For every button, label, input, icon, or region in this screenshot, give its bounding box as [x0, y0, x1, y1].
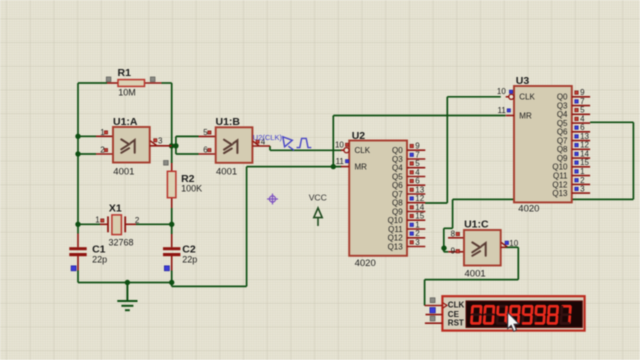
svg-text:Q0: Q0	[392, 146, 403, 155]
U1:C pin9 lead	[448, 251, 464, 253]
wire ground rail right	[172, 285, 247, 287]
U2 pin Q3 (pin 7)	[392, 150, 425, 164]
svg-text:4001: 4001	[216, 166, 237, 177]
U1:C output lead	[501, 246, 506, 248]
op-amp-style NOR gate U1:C body	[464, 230, 501, 266]
U3 CLK pin	[506, 96, 509, 98]
gate U1:A IEC symbol &gt;=1	[121, 139, 134, 152]
svg-text:Q6: Q6	[557, 128, 568, 137]
wire node A to C1	[77, 224, 79, 233]
wire to U1:C pin9	[444, 251, 449, 253]
wire Q5 vertical	[632, 122, 634, 199]
display RST lead	[425, 322, 443, 324]
svg-text:U3: U3	[516, 75, 530, 87]
X1 pin1 lead	[100, 223, 108, 225]
U2 pin Q0 (pin 9)	[392, 142, 425, 156]
svg-text:3: 3	[158, 136, 163, 145]
svg-text:Q9: Q9	[392, 207, 403, 216]
svg-text:7: 7	[580, 97, 585, 106]
wire down to U1:C jog	[452, 199, 454, 228]
C2 bottom lead	[171, 256, 173, 271]
capacitor C2	[163, 234, 180, 271]
svg-text:1: 1	[415, 220, 420, 229]
wire jog U1:C	[444, 227, 453, 229]
wire C2 bottom	[171, 271, 173, 283]
display digit 7 = 8	[546, 305, 559, 325]
wire MR net to U3 MR	[333, 115, 505, 117]
svg-text:U1:A: U1:A	[113, 116, 138, 128]
svg-text:13: 13	[580, 132, 589, 141]
wire U1:C out	[506, 246, 519, 248]
wire to U1:B pin6	[176, 153, 199, 155]
svg-text:VCC: VCC	[309, 192, 327, 202]
R2 top lead	[171, 163, 173, 171]
counter U3 4020 body	[514, 86, 572, 202]
X1 pin2 lead	[125, 223, 136, 225]
svg-text:Q5: Q5	[392, 172, 403, 181]
svg-text:9: 9	[451, 247, 456, 256]
U1:A pin2 lead	[96, 153, 113, 155]
voltage probe symbol	[283, 137, 294, 151]
svg-text:2: 2	[580, 176, 585, 185]
wire to U3 CLK	[447, 96, 501, 98]
svg-text:11: 11	[497, 106, 506, 115]
svg-text:Q10: Q10	[388, 216, 404, 225]
wire Q8 to U3 CLK vertical	[446, 97, 448, 203]
svg-text:Q6: Q6	[392, 181, 403, 190]
svg-text:22p: 22p	[92, 254, 107, 264]
svg-text:4020: 4020	[355, 258, 376, 269]
wire R1 right	[162, 82, 172, 84]
svg-text:Q13: Q13	[388, 242, 404, 251]
power VCC	[314, 208, 322, 226]
U3 pin Q13 (pin 3)	[552, 185, 590, 199]
svg-text:U1:C: U1:C	[464, 218, 489, 230]
display CE lead	[426, 314, 443, 316]
pin marker 9	[456, 250, 459, 253]
svg-text:1: 1	[580, 167, 585, 176]
op-amp-style NOR gate U1:A body	[113, 127, 150, 163]
svg-text:6: 6	[415, 177, 420, 186]
svg-text:Q5: Q5	[557, 119, 568, 128]
U3 pin Q0 (pin 9)	[557, 88, 590, 102]
C2 top lead	[171, 234, 173, 247]
gate U1:B IEC symbol &gt;=1	[224, 140, 237, 153]
svg-text:2: 2	[415, 229, 420, 238]
pin marker 2	[104, 149, 107, 152]
U2 pin Q5 (pin 4)	[392, 168, 425, 182]
svg-text:Q11: Q11	[388, 225, 403, 234]
svg-text:4001: 4001	[465, 268, 486, 279]
svg-text:Q8: Q8	[557, 145, 568, 154]
origin crosshair marker	[267, 194, 278, 205]
svg-text:32768: 32768	[109, 238, 134, 248]
U2 pin Q7 (pin 13)	[392, 185, 425, 199]
wire R1 left to node A	[78, 82, 107, 84]
svg-text:Q4: Q4	[392, 164, 403, 173]
wire U2 Q8 out	[425, 202, 447, 204]
wire Q5 return under U3	[453, 198, 634, 200]
svg-text:5: 5	[415, 159, 420, 168]
svg-text:11: 11	[336, 157, 345, 166]
wire MR net vertical	[332, 116, 334, 167]
R1 terminal marker left	[106, 77, 111, 82]
C1 state marker	[71, 266, 76, 271]
pin marker 11 U3	[507, 109, 510, 112]
svg-text:Q12: Q12	[552, 180, 568, 189]
U1:B output lead	[252, 145, 270, 147]
U1:A output lead	[150, 145, 172, 147]
node junction MR net	[331, 164, 336, 169]
U2 pin Q12 (pin 2)	[388, 229, 426, 243]
U1:C output slash and lead	[501, 242, 507, 247]
U1:B pin5 lead	[199, 135, 216, 137]
wire ground rail left	[78, 282, 172, 284]
display digit 2 = 0	[483, 305, 496, 325]
wire C1 bottom	[77, 271, 79, 283]
svg-text:3: 3	[580, 185, 585, 194]
wire down to display CLK	[424, 280, 426, 306]
wire to U1:A pin1	[78, 135, 96, 137]
U3 pin Q7 (pin 13)	[557, 132, 590, 146]
svg-text:Q3: Q3	[392, 155, 403, 164]
svg-text:2: 2	[135, 216, 140, 225]
pin marker 3	[154, 139, 157, 142]
U2 CLK pin	[341, 149, 344, 151]
display CLK lead	[425, 305, 443, 307]
svg-text:13: 13	[415, 185, 424, 194]
svg-text:Q12: Q12	[388, 234, 404, 243]
wire to display	[425, 279, 519, 281]
svg-text:MR: MR	[355, 163, 368, 172]
pin marker 8	[456, 232, 459, 235]
display digit 8 = 7	[559, 305, 572, 325]
svg-text:4020: 4020	[518, 203, 539, 214]
svg-text:CLK: CLK	[355, 146, 371, 155]
U1:C pin8 lead	[448, 237, 464, 239]
wire U1:C out vertical	[517, 247, 519, 279]
wire MR net to U2 MR	[247, 166, 342, 168]
U3 pin Q8 (pin 12)	[557, 141, 590, 155]
svg-text:Q3: Q3	[557, 102, 568, 111]
svg-text:8: 8	[451, 230, 456, 239]
R1 right lead	[145, 82, 162, 84]
svg-text:10: 10	[509, 239, 518, 248]
U3 pin Q12 (pin 2)	[552, 176, 590, 190]
pin marker 10	[505, 241, 508, 244]
U2 pin Q6 (pin 6)	[392, 177, 425, 191]
display CLK state marker	[430, 298, 435, 303]
svg-text:6: 6	[203, 146, 208, 155]
svg-text:14: 14	[580, 150, 589, 159]
U1:B output slash and lead	[253, 141, 259, 146]
node junction X1 pin2	[169, 222, 174, 227]
U1:A pin1 lead	[96, 135, 113, 137]
wire jog U1:C vertical	[443, 228, 445, 252]
svg-text:Q7: Q7	[392, 190, 403, 199]
U2 pin Q8 (pin 12)	[392, 194, 425, 208]
svg-text:15: 15	[580, 158, 589, 167]
U3 pin Q3 (pin 7)	[557, 97, 590, 111]
node junction X1 pin1	[75, 222, 80, 227]
svg-text:Q13: Q13	[552, 189, 568, 198]
wire R2 bottom to X1 pin2 node	[171, 208, 173, 234]
capacitor C1	[69, 234, 86, 271]
C2 state marker	[164, 266, 169, 271]
wire output node to jog	[172, 145, 176, 147]
wire U1:B out jog	[269, 146, 271, 150]
svg-text:MR: MR	[519, 111, 532, 120]
svg-text:5: 5	[203, 128, 208, 137]
svg-text:12: 12	[580, 141, 589, 150]
svg-text:100K: 100K	[181, 184, 202, 194]
display digit 3 = 4	[495, 305, 508, 325]
U1:B pin6 lead	[199, 153, 216, 155]
node junction U1:C inputs	[441, 245, 446, 250]
wire X1 pin1	[78, 223, 100, 225]
node junction U1:A pin1	[75, 134, 80, 139]
wire U3 Q5 out	[590, 121, 633, 123]
node junction U1:A pin2	[75, 151, 80, 156]
clock waveform icon	[297, 138, 312, 147]
display CLK chevron	[443, 303, 447, 309]
svg-text:1: 1	[95, 216, 100, 225]
R2 terminal marker	[164, 161, 169, 166]
svg-text:9: 9	[580, 88, 585, 97]
svg-text:22p: 22p	[182, 254, 197, 264]
U3 MR pin	[506, 115, 514, 117]
wire up to MR net	[246, 167, 248, 287]
crystal X1	[100, 215, 136, 235]
node junction jog	[173, 143, 178, 148]
pin marker 11 U2	[346, 160, 349, 163]
U3 pin Q10 (pin 15)	[552, 158, 590, 172]
display digit 1 = 0	[470, 305, 483, 325]
U1:A output slash and lead	[150, 141, 157, 146]
counter U2 4020 body	[349, 141, 407, 256]
node junction gate output	[169, 143, 174, 148]
svg-text:CLK: CLK	[448, 301, 465, 310]
wire X1 pin2	[136, 223, 172, 225]
U2 MR pin	[341, 166, 349, 168]
svg-text:Q11: Q11	[553, 172, 568, 181]
resistor R1	[107, 80, 162, 87]
svg-text:Q0: Q0	[557, 93, 568, 102]
wire node B to R2 top	[171, 146, 173, 163]
wire rail step	[171, 283, 173, 287]
pin marker 5	[208, 131, 211, 134]
svg-text:10: 10	[497, 87, 506, 96]
svg-text:4: 4	[415, 168, 420, 177]
wire to U1:A pin2	[78, 153, 96, 155]
node junction ground	[125, 280, 130, 285]
wire to U1:B pin5	[176, 135, 199, 137]
svg-text:5: 5	[580, 106, 585, 115]
wire jog vertical	[175, 136, 177, 154]
U2 pin Q13 (pin 3)	[388, 238, 426, 252]
pin marker 4	[256, 140, 259, 143]
svg-text:CLK: CLK	[519, 93, 535, 102]
svg-text:10M: 10M	[118, 88, 136, 98]
U2 pin Q10 (pin 15)	[388, 212, 426, 226]
R2 bottom lead	[171, 198, 173, 208]
svg-text:7: 7	[415, 150, 420, 159]
svg-text:4001: 4001	[113, 166, 134, 177]
display CE state marker	[430, 308, 435, 313]
pin marker 1	[104, 131, 107, 134]
U3 pin Q11 (pin 1)	[553, 167, 590, 181]
svg-text:6: 6	[580, 123, 585, 132]
R1 terminal marker right	[150, 77, 155, 82]
display RST state marker	[430, 316, 435, 321]
svg-text:Q9: Q9	[557, 154, 568, 163]
R1 left lead	[107, 82, 118, 84]
svg-text:RST: RST	[448, 319, 464, 328]
svg-text:X1: X1	[109, 203, 122, 215]
svg-text:Q7: Q7	[557, 137, 568, 146]
display digit 6 = 9	[534, 305, 547, 325]
display digit 4 = 9	[508, 305, 521, 325]
gate U1:C IEC symbol &gt;=1	[472, 242, 485, 255]
node junction C2 ground	[169, 280, 174, 285]
C1 top lead	[77, 234, 79, 248]
svg-text:U1:B: U1:B	[216, 116, 241, 128]
7-segment counter display DS1	[442, 296, 584, 330]
U2 pin Q11 (pin 1)	[388, 220, 425, 234]
display digit 5 = 9	[521, 305, 534, 325]
U3 pin Q5 (pin 4)	[557, 115, 590, 129]
svg-text:Q4: Q4	[557, 110, 568, 119]
wire node B vertical top	[171, 83, 173, 146]
svg-text:15: 15	[415, 212, 424, 221]
U2 pin Q4 (pin 5)	[392, 159, 425, 173]
svg-text:U2: U2	[352, 130, 366, 142]
pin marker 10 U2	[346, 143, 349, 146]
U2 pin Q9 (pin 14)	[392, 203, 425, 217]
wire node A vertical	[77, 83, 79, 225]
pin marker 10 U3	[509, 90, 512, 93]
svg-text:12: 12	[415, 194, 424, 203]
wire U1:B out to U2 CLK	[270, 149, 342, 151]
svg-text:10: 10	[335, 141, 344, 150]
svg-text:9: 9	[415, 142, 420, 151]
pin marker X1-1	[101, 219, 104, 222]
U3 pin Q6 (pin 6)	[557, 123, 590, 137]
svg-text:U2(CLK): U2(CLK)	[253, 133, 283, 142]
svg-text:R1: R1	[118, 67, 132, 79]
C1 bottom lead	[77, 256, 79, 271]
ground	[117, 283, 137, 311]
svg-text:14: 14	[415, 203, 424, 212]
svg-text:Q10: Q10	[552, 163, 568, 172]
pin marker 6	[208, 149, 211, 152]
U3 pin Q4 (pin 5)	[557, 106, 590, 120]
resistor R2	[167, 163, 176, 208]
op-amp-style NOR gate U1:B body	[216, 127, 253, 163]
U3 pin Q9 (pin 14)	[557, 150, 590, 164]
svg-text:Q8: Q8	[392, 199, 403, 208]
svg-text:3: 3	[415, 238, 420, 247]
mouse cursor	[508, 312, 519, 331]
svg-text:4: 4	[580, 115, 585, 124]
